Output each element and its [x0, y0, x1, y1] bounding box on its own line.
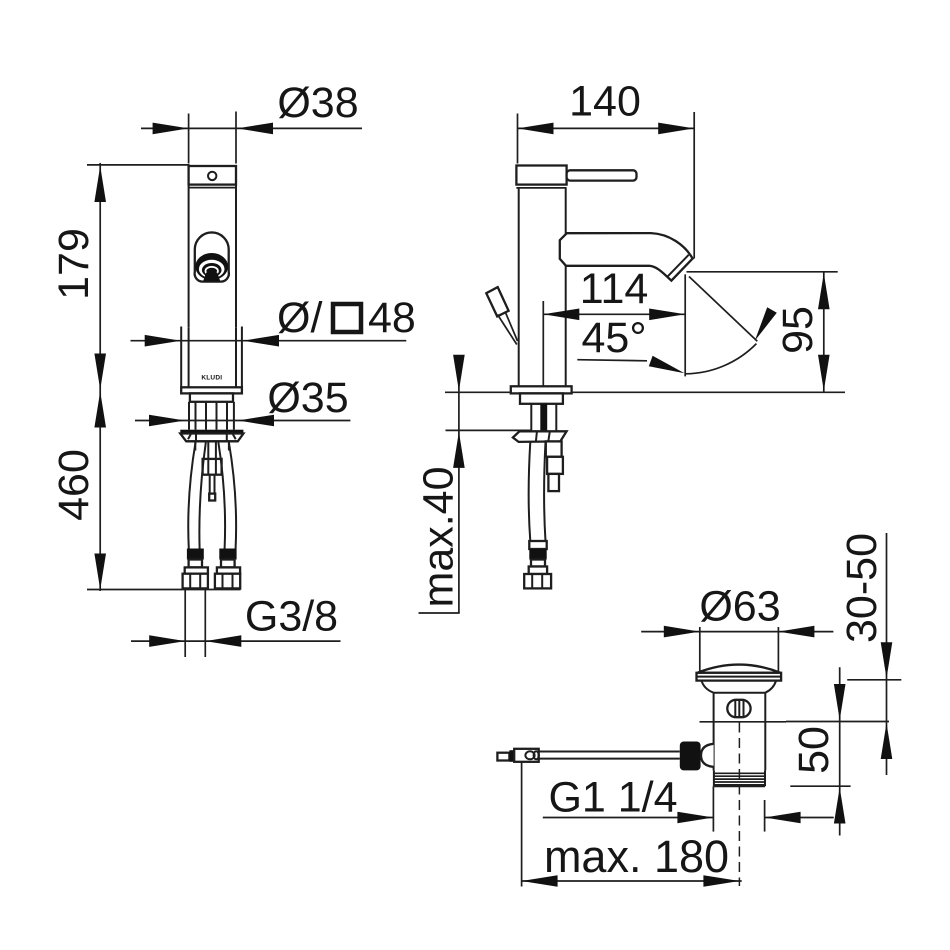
svg-text:Ø/: Ø/ [277, 294, 322, 342]
dimension 460 [50, 391, 241, 592]
svg-text:114: 114 [580, 265, 649, 313]
svg-text:50: 50 [790, 726, 838, 774]
flexible hoses (front) [188, 443, 236, 549]
right hose G3/8 fitting [215, 549, 240, 589]
side flange [511, 386, 572, 393]
svg-text:G1 1/4: G1 1/4 [548, 774, 677, 822]
dimension G3/8 [131, 590, 341, 658]
svg-text:Ø35: Ø35 [267, 374, 348, 422]
dimension 140 [518, 78, 695, 259]
shank shoulder [190, 393, 233, 401]
svg-text:45°: 45° [581, 314, 646, 362]
svg-text:48: 48 [368, 294, 416, 342]
side shank [531, 404, 556, 431]
svg-text:KLUDI: KLUDI [201, 375, 222, 382]
sink flange line [700, 721, 787, 723]
drain plug dome [697, 665, 782, 693]
dimension 30-50 [838, 533, 901, 775]
horizontal pull rod [539, 752, 680, 759]
svg-text:140: 140 [569, 78, 641, 126]
side body [519, 188, 566, 386]
pull-rod coupler block [203, 459, 222, 501]
dimension 50 [790, 667, 851, 835]
mounting nut [180, 430, 243, 442]
front faucet cap [189, 166, 236, 188]
aerator outlet (front) [195, 232, 229, 281]
left hose G3/8 fitting [183, 549, 208, 589]
faucet base block [181, 327, 242, 388]
shank stubs below nut [195, 441, 229, 459]
svg-text:G3/8: G3/8 [245, 593, 338, 641]
side shoulder [520, 393, 563, 403]
base flange [181, 387, 242, 393]
drain thread G1 1/4 [714, 770, 765, 786]
dimension Ø/□48 [131, 294, 416, 347]
rod end connector [497, 749, 538, 762]
svg-text:95: 95 [774, 306, 822, 354]
svg-text:179: 179 [50, 228, 98, 300]
dimension max. 180 [522, 762, 742, 887]
pull-rod linkage [546, 441, 563, 491]
overflow slot [727, 700, 750, 717]
pull-rod knob [486, 287, 517, 344]
counter/table line [445, 391, 845, 393]
dimension Ø35 [135, 374, 350, 426]
svg-text:30-50: 30-50 [838, 533, 886, 643]
threaded shank Ø35 [189, 402, 234, 430]
svg-text:max.40: max.40 [415, 466, 463, 607]
svg-text:max. 180: max. 180 [544, 831, 729, 882]
pop-up tee knob [680, 742, 714, 771]
front faucet body [189, 185, 236, 328]
dimension max.40 [415, 355, 531, 613]
drain body [714, 693, 766, 771]
svg-text:Ø63: Ø63 [699, 583, 780, 631]
side hose [524, 442, 551, 589]
svg-text:460: 460 [50, 449, 98, 521]
dimension G1 1/4 [543, 774, 834, 832]
dimension 114 [543, 265, 685, 386]
dimension Ø38 [141, 79, 362, 164]
tilted washer plate [513, 431, 567, 442]
dimension 95 [687, 272, 838, 393]
dimension 179 [50, 163, 190, 391]
dimension Ø63 [641, 583, 833, 673]
drain center line [738, 723, 740, 887]
45 degree callout [577, 277, 777, 374]
spout [560, 233, 693, 281]
svg-text:Ø38: Ø38 [277, 79, 358, 127]
side cap and lever [516, 166, 636, 188]
